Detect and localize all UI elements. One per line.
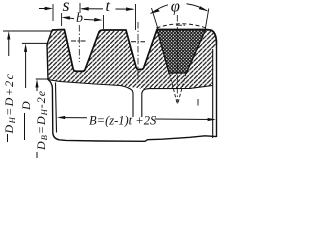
svg-text:DB=DH-2e: DB=DH-2e (34, 90, 49, 151)
svg-text:D: D (19, 101, 33, 111)
svg-text:s: s (63, 0, 70, 15)
svg-text:φ: φ (171, 0, 180, 15)
svg-text:b: b (76, 11, 83, 26)
svg-text:DH=D+2c: DH=D+2c (2, 73, 17, 135)
svg-text:B=(z-1)t +2S: B=(z-1)t +2S (89, 114, 157, 128)
svg-text:t: t (106, 0, 111, 15)
